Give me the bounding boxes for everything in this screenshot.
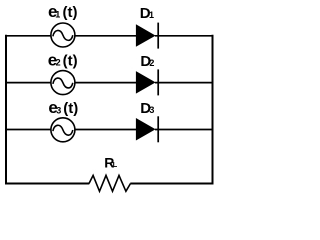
wire row1 middle segment	[75, 35, 137, 37]
svg-text:2: 2	[149, 58, 154, 68]
label e3(t)	[48, 98, 78, 117]
AC source e3	[51, 118, 75, 142]
wire row2 right segment	[155, 82, 213, 84]
label D3	[140, 100, 154, 117]
diode D1	[136, 23, 158, 49]
label RL	[104, 154, 117, 170]
label e1(t)	[48, 2, 78, 21]
svg-text:(t): (t)	[63, 4, 78, 21]
wire row2 middle segment	[75, 82, 137, 84]
wire row3 right segment	[155, 129, 213, 131]
wire left rail	[5, 35, 7, 185]
wire row3 left segment	[5, 129, 51, 131]
svg-text:(t): (t)	[63, 52, 78, 69]
svg-text:L: L	[113, 160, 118, 169]
wire bottom rail left	[5, 183, 89, 185]
wire row3 middle segment	[75, 129, 137, 131]
svg-text:3: 3	[149, 105, 154, 115]
label D2	[140, 53, 154, 70]
wire right rail	[212, 35, 214, 185]
diode D3	[136, 116, 158, 142]
svg-text:2: 2	[56, 58, 61, 68]
diode D2	[136, 69, 158, 95]
wire row2 left segment	[5, 82, 51, 84]
resistor RL	[89, 175, 131, 191]
label e2(t)	[48, 50, 78, 69]
AC source e2	[51, 71, 75, 95]
wire row1 right segment	[155, 35, 213, 37]
svg-text:1: 1	[149, 10, 154, 20]
svg-text:3: 3	[56, 105, 61, 115]
wire bottom rail right	[130, 183, 213, 185]
svg-text:1: 1	[55, 9, 60, 19]
wire row1 left segment	[5, 35, 51, 37]
AC source e1	[51, 23, 75, 47]
label D1	[140, 5, 154, 22]
svg-text:(t): (t)	[63, 100, 78, 117]
